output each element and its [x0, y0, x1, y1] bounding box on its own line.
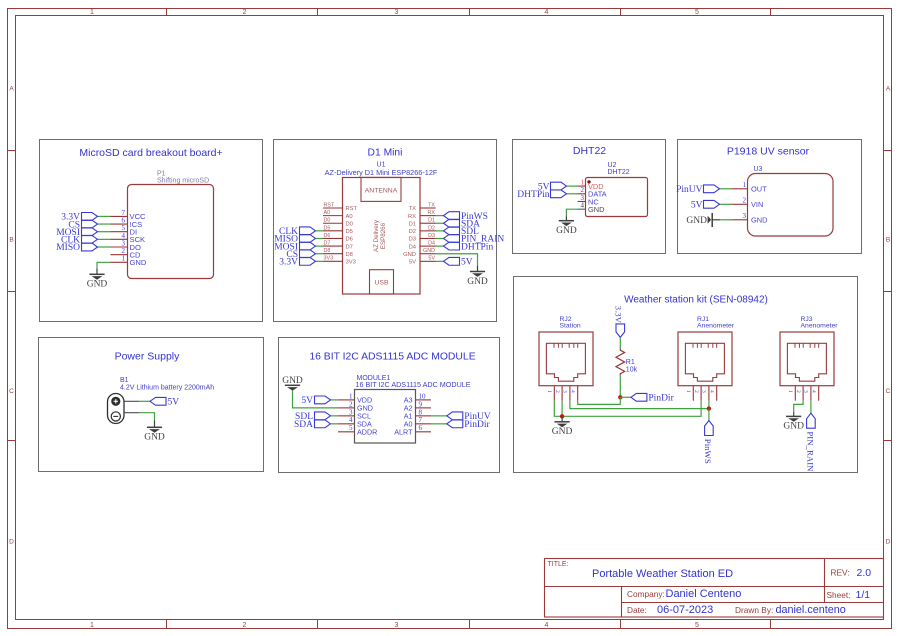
pin 1 of RJ2: [546, 386, 554, 401]
pin A0 of U1 (left): [323, 210, 353, 220]
wire RJ3 pin 3 to PIN_RAIN flag: [810, 401, 812, 414]
wire net MOSI to P1 pin 5: [98, 231, 111, 233]
pin 6 ALRT of MODULE1: [394, 424, 431, 436]
svg-text:SDA: SDA: [294, 420, 313, 430]
pin 3 NC of U2: [578, 194, 600, 206]
wire net PinUV to U3 pin 1: [720, 188, 732, 190]
net flag CLK: [279, 227, 316, 237]
wire net PinDir to MODULE1 pin 7: [431, 423, 447, 425]
svg-text:GND: GND: [423, 248, 435, 254]
svg-text:1/1: 1/1: [856, 589, 871, 601]
svg-text:U3: U3: [754, 166, 763, 173]
svg-text:MISO: MISO: [56, 243, 80, 253]
net flag SDA: [444, 219, 481, 229]
svg-text:D0: D0: [346, 221, 353, 227]
net flag 5V (DHT22): [538, 182, 567, 192]
svg-text:2: 2: [243, 622, 247, 629]
svg-text:DHTPin: DHTPin: [461, 242, 493, 252]
pin RX of U1 (right): [408, 210, 436, 220]
USB section of U1: [370, 270, 394, 294]
svg-text:B1: B1: [120, 377, 129, 384]
svg-text:REV:: REV:: [831, 568, 850, 578]
net flag 5V (D1 Mini): [444, 257, 473, 267]
pin 4 SCK of P1: [111, 232, 146, 244]
pin D6 of U1 (left): [323, 233, 353, 243]
ground GND (D1 Mini): [470, 272, 485, 277]
junction node PinWS: [707, 406, 711, 410]
svg-text:Drawn By:: Drawn By:: [735, 605, 773, 615]
pin 4 of RJ1: [708, 386, 716, 401]
svg-text:PinWS: PinWS: [703, 439, 713, 464]
resistor R1 10k: [616, 349, 638, 376]
wire net 3.3V to P1 pin 7: [98, 215, 111, 217]
wire U2 pin 4 to ground: [566, 209, 577, 216]
svg-text:D6: D6: [346, 237, 353, 243]
svg-text:D: D: [9, 539, 14, 546]
svg-text:D2: D2: [428, 225, 435, 231]
svg-text:2: 2: [243, 9, 247, 16]
svg-text:ADDR: ADDR: [357, 428, 377, 437]
battery B1 4.2V Lithium battery 2200mAh: [108, 377, 215, 423]
pin 2 of RJ2: [554, 386, 562, 401]
net flag 3.3V: [61, 213, 97, 223]
svg-text:1: 1: [685, 390, 691, 393]
svg-text:3V3: 3V3: [324, 256, 334, 262]
block 16 BIT I2C ADS1115 ADC MODULE: [279, 338, 500, 473]
svg-text:C: C: [886, 388, 891, 395]
ground GND (weather kit RJ3): [786, 416, 801, 421]
wire RJ2 pin 2 to ground junction: [561, 401, 563, 417]
pin 7 VCC of P1: [111, 209, 147, 221]
svg-text:PIN_RAIN: PIN_RAIN: [805, 431, 815, 472]
svg-text:GND: GND: [144, 433, 165, 443]
net flag 3.3V vertical (weather kit): [613, 306, 624, 338]
wire net 5V to MODULE1 pin 1: [331, 399, 339, 401]
wire RJ1 pin 3 down: [708, 401, 710, 409]
pin 4 GND of U2: [578, 202, 605, 214]
ground GND (DHT22): [559, 221, 574, 226]
svg-text:Sheet:: Sheet:: [827, 590, 851, 600]
svg-text:4: 4: [545, 622, 549, 629]
svg-text:3V3: 3V3: [346, 260, 356, 266]
svg-text:4: 4: [708, 390, 714, 393]
pin 2 of RJ1: [693, 386, 701, 401]
svg-text:Anenometer: Anenometer: [697, 322, 735, 329]
wire net CS to U1 pin D8: [316, 253, 324, 255]
svg-text:GND: GND: [552, 427, 573, 437]
wire 3.3V flag to resistor R1: [619, 337, 621, 348]
pin 4 of RJ3: [810, 386, 818, 401]
pin 3 of RJ2: [562, 386, 570, 401]
svg-text:Portable Weather Station ED: Portable Weather Station ED: [592, 568, 733, 580]
net flag PinWS: [444, 212, 488, 222]
net flag PinWS vertical: [703, 421, 713, 464]
junction node GND (weather kit): [560, 414, 564, 418]
svg-text:RST: RST: [324, 202, 335, 208]
svg-text:TITLE:: TITLE:: [548, 561, 569, 568]
block D1 Mini: [274, 140, 497, 322]
net flag MOSI: [56, 228, 97, 238]
pin GND of U1 (right): [403, 248, 435, 258]
svg-text:1: 1: [122, 255, 126, 263]
svg-text:5: 5: [695, 622, 699, 629]
svg-text:GND: GND: [783, 422, 804, 432]
svg-text:3.3V: 3.3V: [613, 306, 623, 324]
block P1918 UV sensor: [678, 140, 862, 254]
svg-text:Date:: Date:: [627, 605, 647, 615]
pin 3 of RJ3: [803, 386, 811, 401]
wire battery - to ground: [124, 412, 139, 414]
svg-text:AZ Delivery: AZ Delivery: [373, 219, 380, 252]
wire net MOSI to U1 pin D7: [316, 245, 324, 247]
svg-text:1: 1: [90, 622, 94, 629]
svg-text:3: 3: [349, 408, 353, 416]
MCU module U1 AZ-Delivery D1 Mini ESP8266-12F: [325, 162, 438, 294]
svg-text:5V: 5V: [428, 256, 435, 262]
svg-text:PinUV: PinUV: [676, 185, 703, 195]
svg-text:2: 2: [693, 390, 699, 393]
svg-text:GND: GND: [403, 252, 416, 258]
wire U1 GND pin to ground: [436, 254, 478, 266]
svg-text:TX: TX: [409, 206, 417, 212]
pin 1 VDD of U2: [578, 179, 604, 191]
svg-text:06-07-2023: 06-07-2023: [657, 604, 713, 616]
svg-text:A: A: [9, 86, 14, 93]
pin 3 of RJ1: [701, 386, 709, 401]
svg-text:ALRT: ALRT: [394, 428, 413, 437]
pin 3 SCL of MODULE1: [338, 408, 371, 420]
pin D5 of U1 (left): [323, 225, 353, 235]
pin RST of U1 (left): [323, 202, 358, 212]
svg-text:Anenometer: Anenometer: [801, 322, 839, 329]
wire net SDL to U1 pin D2: [436, 230, 444, 232]
ground GND (MicroSD): [89, 274, 104, 279]
wire net MISO to U1 pin D6: [316, 237, 324, 239]
svg-text:3: 3: [701, 390, 707, 393]
svg-text:D8: D8: [324, 248, 331, 254]
connector P1 Shifting microSD: [128, 170, 214, 278]
svg-text:GND: GND: [751, 216, 767, 225]
svg-text:VIN: VIN: [751, 200, 763, 209]
pin 3V3 of U1 (left): [323, 256, 356, 266]
wire gnd stem: [96, 268, 98, 274]
net flag MISO: [56, 243, 97, 253]
svg-text:U2: U2: [608, 162, 617, 169]
wire junction to PinWS flag: [708, 409, 710, 421]
pin 1 of RJ3: [787, 386, 795, 401]
svg-text:GND: GND: [467, 277, 488, 287]
svg-text:Company:: Company:: [627, 589, 665, 599]
net flag PinUV (ADC): [447, 412, 491, 422]
pin 10 A3 of MODULE1: [404, 392, 431, 404]
pin 1 of RJ1: [685, 386, 693, 401]
svg-text:B: B: [9, 237, 13, 244]
wire P1 pin 1 GND: [97, 262, 111, 268]
title block texts: [548, 561, 872, 616]
sensor module U3 P1918 UV: [748, 166, 834, 236]
ground GND (power supply): [147, 427, 162, 432]
wire net 3.3V to U1 pin 3V3: [316, 260, 324, 262]
net flag SDA: [294, 420, 331, 430]
wire gnd stem: [793, 412, 795, 416]
svg-text:16 BIT I2C ADS1115 ADC MODULE: 16 BIT I2C ADS1115 ADC MODULE: [309, 352, 475, 363]
svg-text:9: 9: [419, 400, 423, 408]
wire battery + to 5V flag: [124, 400, 139, 402]
svg-text:D4: D4: [428, 241, 435, 247]
svg-text:5V: 5V: [409, 260, 416, 266]
pin D2 of U1 (right): [409, 225, 436, 235]
ground GND (ADC): [282, 376, 303, 391]
sensor U2 DHT22: [586, 162, 648, 217]
svg-text:RX: RX: [408, 214, 416, 220]
svg-text:8: 8: [419, 408, 423, 416]
pin 5 ADDR of MODULE1: [338, 424, 377, 436]
pin 2 CD of P1: [111, 247, 141, 259]
pin 5V of U1 (right): [409, 256, 436, 266]
svg-text:5V: 5V: [168, 398, 180, 408]
title block: [545, 559, 884, 618]
svg-text:PinDir: PinDir: [464, 420, 490, 430]
svg-text:2.0: 2.0: [857, 567, 872, 579]
svg-text:1: 1: [349, 392, 353, 400]
svg-text:RX: RX: [428, 210, 436, 216]
net flag MISO: [274, 235, 315, 245]
wire ground net RJ2 pin1 - RJ2 pin2 - RJ1 pin2: [554, 401, 701, 417]
wire RJ2 pin 3 to RJ1 pin 3 (PinWS net): [570, 401, 709, 409]
battery B1 negative terminal: [111, 412, 120, 421]
svg-text:5: 5: [349, 424, 353, 432]
svg-text:Station: Station: [560, 322, 581, 329]
svg-text:PinDir: PinDir: [648, 394, 674, 404]
svg-text:3.3V: 3.3V: [279, 258, 298, 268]
svg-text:DHTPin: DHTPin: [517, 190, 549, 200]
svg-text:GND: GND: [588, 205, 604, 214]
module MODULE1 16 BIT I2C ADS1115 ADC MODULE: [355, 375, 471, 443]
net flag SDL: [295, 412, 330, 422]
svg-text:USB: USB: [375, 280, 389, 287]
wire gnd stem: [154, 421, 156, 428]
svg-text:7: 7: [419, 416, 423, 424]
svg-text:D8: D8: [346, 252, 353, 258]
connector RJ1 Anenometer: [678, 316, 735, 386]
svg-text:6: 6: [419, 424, 423, 432]
svg-text:1: 1: [787, 390, 793, 393]
pin TX of U1 (right): [409, 202, 436, 212]
net flag PIN_RAIN: [444, 235, 505, 245]
svg-text:D3: D3: [428, 233, 435, 239]
net flag 5V (ADC): [301, 396, 330, 406]
pin D1 of U1 (right): [409, 218, 436, 228]
svg-text:3: 3: [743, 212, 747, 220]
svg-text:1: 1: [90, 9, 94, 16]
wire net CLK to U1 pin D5: [316, 230, 324, 232]
svg-text:D1: D1: [409, 221, 416, 227]
wire net PinUV to MODULE1 pin 8: [431, 415, 447, 417]
pin 2 DATA of U2: [578, 186, 607, 198]
pin 8 A1 of MODULE1: [404, 408, 431, 420]
svg-text:P1: P1: [157, 170, 166, 177]
wire net MISO to P1 pin 3: [98, 246, 111, 248]
svg-text:D4: D4: [409, 244, 417, 250]
pin D4 of U1 (right): [409, 241, 436, 251]
net flag DHTPin: [444, 242, 494, 252]
svg-text:A0: A0: [324, 210, 331, 216]
block Power Supply: [39, 338, 264, 472]
svg-text:A: A: [886, 86, 891, 93]
svg-text:D2: D2: [409, 229, 416, 235]
svg-text:3: 3: [395, 622, 399, 629]
svg-text:D1 Mini: D1 Mini: [368, 147, 403, 158]
svg-text:5V: 5V: [461, 258, 473, 268]
svg-text:2: 2: [743, 197, 747, 205]
svg-text:2: 2: [795, 390, 801, 393]
wire gnd stem: [565, 216, 567, 221]
svg-text:D6: D6: [324, 233, 331, 239]
svg-text:4: 4: [810, 390, 816, 393]
net flag CLK: [61, 235, 98, 245]
svg-text:5: 5: [695, 9, 699, 16]
pin D3 of U1 (right): [409, 233, 436, 243]
junction node PinDir: [618, 395, 622, 399]
svg-text:DHT22: DHT22: [573, 145, 606, 157]
svg-text:C: C: [9, 388, 14, 395]
wire net SDL to MODULE1 pin 3: [331, 415, 339, 417]
svg-text:2: 2: [554, 390, 560, 393]
svg-text:4.2V Lithium battery 2200mAh: 4.2V Lithium battery 2200mAh: [120, 385, 214, 392]
svg-text:D7: D7: [324, 241, 331, 247]
net flag 3.3V: [279, 257, 315, 267]
wire net DHTPin to U2 pin 2: [567, 193, 578, 195]
pin 2 of RJ3: [795, 386, 803, 401]
svg-text:1: 1: [743, 181, 747, 189]
svg-text:Weather station kit (SEN-08942: Weather station kit (SEN-08942): [624, 294, 768, 305]
wire junction to PinDir flag: [620, 396, 631, 398]
svg-text:P1918 UV sensor: P1918 UV sensor: [727, 146, 810, 158]
pin 2 GND of MODULE1: [338, 400, 373, 412]
svg-text:B: B: [886, 237, 890, 244]
net flag PinUV: [676, 185, 719, 195]
block MicroSD card breakout board+: [40, 140, 263, 322]
svg-text:D1: D1: [428, 218, 435, 224]
pin D7 of U1 (left): [323, 241, 353, 251]
wire junction to RJ2 pin 4: [578, 397, 621, 404]
svg-text:D3: D3: [409, 237, 416, 243]
ground GND rotated (UV sensor): [686, 213, 720, 227]
net flag PinDir (ADC): [447, 420, 491, 430]
net flag CS: [286, 250, 315, 260]
pin 3 DO of P1: [111, 239, 141, 251]
pin 3 GND of U3: [732, 212, 768, 224]
svg-text:ESP8266: ESP8266: [380, 222, 387, 249]
svg-text:GND: GND: [686, 216, 707, 226]
pin 1 OUT of U3: [732, 181, 768, 193]
pin 1 marker dot of U2: [587, 180, 590, 183]
wire U3 pin 3 to ground: [720, 219, 732, 221]
wire gnd stem: [561, 416, 563, 422]
net flag SDL: [444, 227, 480, 237]
svg-text:D: D: [886, 539, 891, 546]
pin 1 VDD of MODULE1: [338, 392, 372, 404]
svg-text:D7: D7: [346, 244, 353, 250]
svg-text:3: 3: [803, 390, 809, 393]
block Weather station kit (SEN-08942): [514, 277, 858, 473]
svg-text:3: 3: [562, 390, 568, 393]
svg-text:daniel.centeno: daniel.centeno: [776, 604, 846, 616]
svg-text:GND: GND: [556, 226, 577, 236]
antenna section of U1: [361, 177, 401, 201]
net flag DHTPin: [517, 190, 566, 200]
svg-text:1: 1: [546, 390, 552, 393]
svg-text:Daniel Centeno: Daniel Centeno: [666, 588, 742, 600]
svg-text:4: 4: [545, 9, 549, 16]
wire net CS to P1 pin 6: [98, 223, 111, 225]
wire RJ3 pin 2 to ground: [794, 401, 803, 413]
pin 7 A0 of MODULE1: [404, 416, 431, 428]
connector RJ2 Station: [539, 316, 593, 386]
svg-text:5V: 5V: [301, 396, 313, 406]
wire net PIN_RAIN to U1 pin D3: [436, 237, 444, 239]
connector RJ3 Anenometer: [780, 316, 838, 386]
wire net 5V to U1 pin 5V: [436, 260, 444, 262]
svg-text:D5: D5: [324, 225, 331, 231]
pin 9 A2 of MODULE1: [404, 400, 431, 412]
wire net SDA to U1 pin D1: [436, 222, 444, 224]
net flag PinDir (weather kit): [631, 393, 675, 403]
wire net SDA to MODULE1 pin 4: [331, 423, 339, 425]
svg-text:4: 4: [581, 202, 585, 210]
pin 5 DI of P1: [111, 224, 138, 236]
wire R1 to PinDir junction: [619, 375, 621, 397]
ground GND (weather kit RJ2): [555, 422, 570, 427]
svg-text:A0: A0: [346, 214, 353, 220]
net flag PIN_RAIN vertical: [805, 413, 815, 472]
pin D0 of U1 (left): [323, 218, 353, 228]
pin 4 SDA of MODULE1: [338, 416, 372, 428]
svg-text:5V: 5V: [691, 201, 703, 211]
svg-text:AZ-Delivery D1 Mini ESP8266-12: AZ-Delivery D1 Mini ESP8266-12F: [325, 168, 438, 177]
pin D8 of U1 (left): [323, 248, 353, 258]
svg-text:3: 3: [395, 9, 399, 16]
pin 2 VIN of U3: [732, 197, 764, 209]
svg-text:10: 10: [419, 392, 427, 400]
svg-text:GND: GND: [87, 280, 108, 290]
svg-text:R1: R1: [626, 359, 635, 366]
svg-text:OUT: OUT: [751, 185, 767, 194]
wire gnd stem: [477, 266, 479, 272]
wire net PinWS to U1 pin RX: [436, 215, 444, 217]
pin 4 of RJ2: [569, 386, 577, 401]
net flag MOSI: [274, 242, 315, 252]
svg-text:10k: 10k: [626, 366, 638, 373]
svg-text:Shifting microSD: Shifting microSD: [157, 177, 209, 184]
svg-text:GND: GND: [130, 258, 147, 267]
pin 6 !CS of P1: [111, 216, 143, 228]
wire net 5V to U2 pin 1: [567, 185, 578, 187]
svg-text:4: 4: [569, 390, 575, 393]
svg-text:ANTENNA: ANTENNA: [365, 187, 398, 194]
pin 1 GND of P1: [111, 255, 147, 267]
svg-text:RST: RST: [346, 206, 358, 212]
svg-text:MicroSD card breakout board+: MicroSD card breakout board+: [79, 147, 222, 159]
wire net CLK to P1 pin 4: [98, 238, 111, 240]
wire net 5V to U3 pin 2: [720, 203, 732, 205]
svg-text:2: 2: [349, 400, 353, 408]
net flag CS: [68, 220, 97, 230]
wire ground to MODULE1 pin 2: [293, 391, 339, 408]
svg-text:D5: D5: [346, 229, 353, 235]
svg-text:TX: TX: [428, 202, 435, 208]
net flag 5V (UV sensor): [691, 200, 720, 210]
